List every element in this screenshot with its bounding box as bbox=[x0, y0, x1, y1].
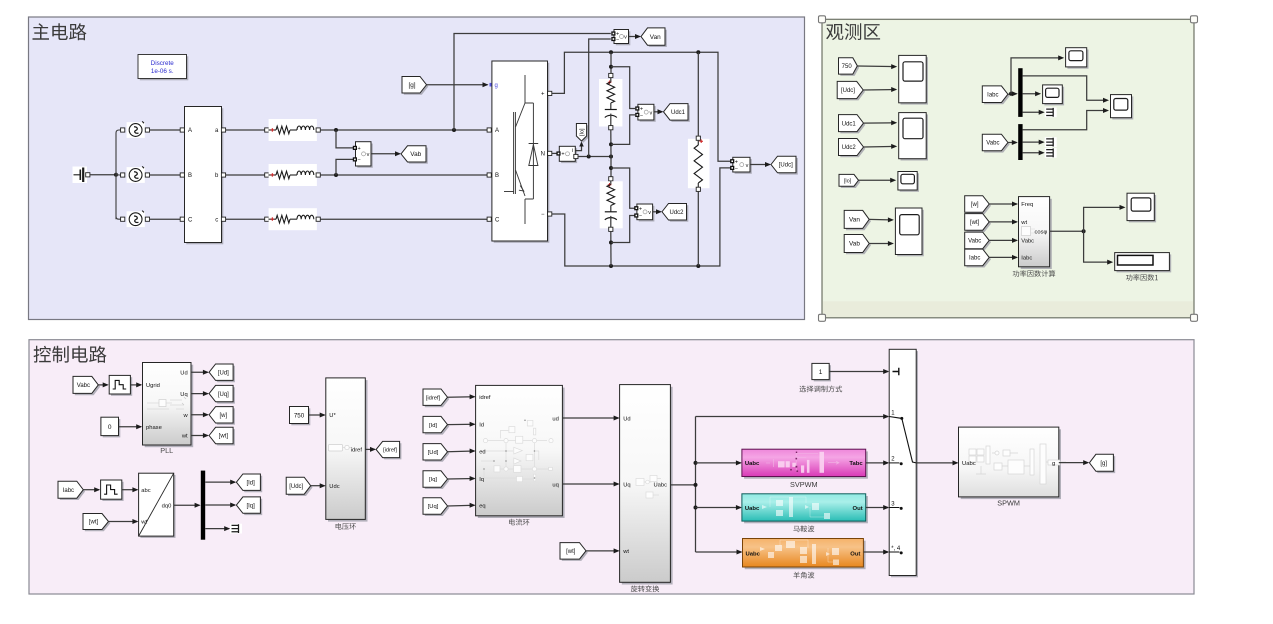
wire rail to switch input1 bbox=[696, 414, 890, 419]
wire Udc1 v output bbox=[654, 109, 664, 114]
svg-text:−: − bbox=[541, 212, 545, 218]
svg-text:uq: uq bbox=[552, 482, 558, 488]
from tag Iabc2 (obs) bbox=[965, 249, 991, 267]
wire rail to saddle bbox=[696, 505, 742, 510]
from tag [Udc] (ctrl) bbox=[286, 477, 312, 496]
svg-text:[Iq]: [Iq] bbox=[429, 477, 437, 483]
svg-text:SPWM: SPWM bbox=[997, 499, 1020, 508]
svg-text:1e-06 s.: 1e-06 s. bbox=[151, 68, 174, 75]
goto tag [Ud] bbox=[209, 364, 235, 382]
svg-text:[Udc]: [Udc] bbox=[841, 88, 855, 94]
svg-text:Discrete: Discrete bbox=[151, 60, 175, 67]
scope Ia Va bbox=[1111, 95, 1134, 120]
from tag Iabc (ctrl) bbox=[58, 481, 85, 500]
wire N to current measurement bbox=[552, 152, 557, 154]
wire converter + to top rail bbox=[552, 50, 731, 161]
svg-text:−: − bbox=[640, 113, 643, 119]
wire Io i-output to [Io] tag bbox=[576, 142, 584, 151]
wire rail to SVPWM bbox=[696, 460, 742, 465]
goto tag Udc1 bbox=[664, 104, 690, 122]
svg-text:Tabc: Tabc bbox=[849, 461, 863, 467]
svg-text:Udc: Udc bbox=[329, 484, 339, 490]
wire demux2 out1 bbox=[1023, 108, 1109, 130]
selection handle bbox=[819, 314, 826, 321]
wire source Vc to block bbox=[150, 217, 185, 221]
wire 750 to U* bbox=[309, 413, 326, 418]
svg-text:Van: Van bbox=[650, 34, 661, 41]
voltage measurement [Udc] block bbox=[730, 157, 752, 174]
wire C1 bottom to column bbox=[609, 130, 613, 157]
svg-text:PLL: PLL bbox=[160, 446, 173, 455]
svg-text:Uabc: Uabc bbox=[745, 461, 760, 467]
wire [w] to Freq bbox=[989, 202, 1018, 207]
svg-text:[Ud]: [Ud] bbox=[428, 450, 439, 456]
wire to pf display bbox=[1084, 231, 1114, 264]
from tag Vabc (obs) bbox=[982, 134, 1009, 152]
goto tag [wt] bbox=[209, 427, 235, 445]
goto tag [Udc] bbox=[771, 156, 798, 174]
wire converter - to bottom rail bbox=[552, 168, 731, 268]
wire Uabc rail bbox=[670, 417, 697, 553]
svg-text:[Uq]: [Uq] bbox=[428, 504, 439, 510]
converter block (IGBT bridge) bbox=[492, 61, 552, 243]
wire source Va to block bbox=[150, 128, 185, 132]
wire R bottom to rail bbox=[697, 191, 699, 266]
wire [g] to converter gate bbox=[427, 82, 494, 87]
svg-text:+: + bbox=[561, 152, 564, 158]
subsystem SVPWM bbox=[742, 449, 868, 489]
svg-text:g: g bbox=[1052, 461, 1055, 467]
goto tag Van bbox=[641, 28, 667, 47]
wire to Udc2 - bbox=[611, 216, 635, 243]
wire horn to switch4 bbox=[863, 550, 889, 555]
svg-text:[idref]: [idref] bbox=[426, 395, 441, 401]
annotation area 观测区 inner bbox=[823, 20, 1193, 301]
annotation area 控制电路 (control circuit region) bbox=[29, 340, 1194, 594]
wire Vabc to ZOH bbox=[98, 382, 108, 387]
svg-text:B: B bbox=[495, 173, 499, 179]
wire PLL to [Ud] bbox=[191, 370, 209, 375]
svg-text:B: B bbox=[188, 173, 192, 179]
subsystem 电压环 (voltage loop) bbox=[326, 378, 368, 530]
demux Iabc bbox=[1018, 68, 1022, 117]
svg-text:Freq: Freq bbox=[1021, 202, 1033, 208]
wire DC midpoint column upper bbox=[609, 52, 613, 77]
subsystem 旋转变换 (rotating transform) bbox=[620, 385, 673, 592]
svg-text:[Ud]: [Ud] bbox=[218, 370, 229, 376]
svg-text:[idref]: [idref] bbox=[383, 448, 397, 454]
AC voltage source Va bbox=[121, 121, 150, 137]
svg-text:dq0: dq0 bbox=[162, 504, 172, 510]
wire C2 bottom to bottom rail bbox=[609, 231, 613, 266]
svg-text:−: − bbox=[616, 37, 619, 43]
svg-text:[g]: [g] bbox=[408, 82, 415, 89]
svg-text:Iq: Iq bbox=[479, 477, 484, 483]
from tag [g] bbox=[402, 77, 428, 95]
wire cos output bbox=[1050, 229, 1086, 233]
from tag Iabc (obs) bbox=[982, 86, 1009, 104]
svg-text:Udc1: Udc1 bbox=[842, 121, 857, 127]
constant tag 750 (obs) bbox=[839, 58, 860, 76]
series RL branch RL3 bbox=[269, 208, 321, 230]
wire DC column mid-lower bbox=[609, 157, 613, 181]
svg-text:Vab: Vab bbox=[410, 151, 421, 158]
demux Vabc bbox=[1018, 124, 1022, 160]
wire 1 to switch ctrl bbox=[829, 369, 889, 374]
wire [wt] to rot bbox=[586, 548, 620, 553]
series RL branch RL2 bbox=[269, 164, 321, 186]
constant 1 (modulation select) bbox=[800, 363, 843, 392]
svg-text:Vabc: Vabc bbox=[77, 383, 90, 389]
load resistor R bbox=[688, 136, 710, 191]
scope Udc1 Udc2 bbox=[899, 113, 928, 161]
wire [Iq] to current loop bbox=[448, 476, 476, 481]
from tag Udc1 (obs) bbox=[839, 115, 866, 134]
wire ZOH2 to abc bbox=[122, 487, 139, 492]
wire Udc2 v output bbox=[653, 209, 662, 214]
from tag [Id] (cl) bbox=[423, 416, 449, 434]
demux Idq bbox=[201, 471, 205, 540]
svg-text:0: 0 bbox=[108, 424, 112, 431]
svg-text:cosφ: cosφ bbox=[1035, 230, 1048, 236]
svg-text:C: C bbox=[495, 217, 500, 223]
svg-text:Van: Van bbox=[849, 217, 860, 224]
svg-text:[wt]: [wt] bbox=[219, 434, 229, 440]
from tag [Udc] (obs) bbox=[837, 81, 865, 100]
svg-text:phase: phase bbox=[146, 425, 162, 431]
wire Van to scope bbox=[869, 217, 894, 222]
wire demux2 out2 bbox=[1023, 137, 1057, 147]
powergui block Discrete 1e-06 s bbox=[138, 55, 188, 81]
goto tag [idref] bbox=[376, 441, 401, 459]
wire Udc2 to scope2 bbox=[864, 144, 898, 149]
wire source bus vertical bbox=[116, 130, 121, 219]
svg-text:wt: wt bbox=[622, 549, 629, 555]
scope Ia top bbox=[1066, 48, 1089, 69]
svg-text:c: c bbox=[215, 217, 218, 223]
zero-order hold 1 bbox=[109, 375, 132, 395]
svg-text:abc: abc bbox=[141, 488, 150, 494]
wire Vabc to demux bbox=[1008, 140, 1018, 145]
wire PLL to [Uq] bbox=[191, 391, 209, 396]
svg-text:Ud: Ud bbox=[623, 416, 630, 422]
svg-text:+: + bbox=[735, 159, 738, 165]
goto tag [g] bbox=[1089, 454, 1115, 473]
wire [Ud] to current loop bbox=[448, 449, 476, 454]
wire phase a to converter A bbox=[320, 128, 491, 132]
wire rail to horn bbox=[696, 550, 743, 555]
svg-text:750: 750 bbox=[842, 64, 853, 70]
constant 0 bbox=[101, 417, 120, 437]
svg-text:Out: Out bbox=[850, 552, 860, 558]
scope Udc ref bbox=[899, 55, 928, 104]
constant 750 bbox=[290, 407, 311, 426]
svg-text:Iabc: Iabc bbox=[969, 256, 980, 262]
wire source Vb to block bbox=[150, 173, 185, 177]
current measurement Io bbox=[556, 146, 578, 163]
svg-text:Iabc: Iabc bbox=[1021, 256, 1032, 262]
from tag Vabc (pll) bbox=[73, 376, 100, 395]
from tag Vabc2 (obs) bbox=[965, 232, 991, 250]
from tag [Ud] (cl) bbox=[423, 444, 449, 462]
svg-text:[wt]: [wt] bbox=[89, 520, 99, 526]
AC voltage source Vc bbox=[121, 211, 150, 228]
wire phase b to converter B bbox=[320, 173, 491, 177]
capacitor branch C2 (RC series) bbox=[600, 181, 623, 232]
svg-text:N: N bbox=[541, 152, 545, 158]
svg-text:*, 4: *, 4 bbox=[891, 546, 901, 552]
wire block c to RL branch bbox=[226, 217, 269, 221]
from tag Van (obs) bbox=[844, 210, 871, 230]
svg-text:ed: ed bbox=[479, 449, 485, 455]
subsystem 电流环 (current loop) bbox=[476, 385, 565, 525]
wire [Io] to scope bbox=[859, 178, 897, 183]
svg-text:[Udc]: [Udc] bbox=[289, 484, 303, 490]
svg-text:[Io]: [Io] bbox=[844, 179, 852, 185]
svg-text:Uabc: Uabc bbox=[653, 482, 667, 488]
wire ground to source bus bbox=[90, 173, 118, 177]
wire 0 to PLL phase bbox=[119, 424, 143, 429]
wire PLL to [wt] bbox=[191, 433, 209, 438]
svg-text:v: v bbox=[648, 210, 651, 216]
wire midpoint to Van - bbox=[589, 39, 611, 157]
wire demux1 out2 bbox=[1023, 91, 1042, 96]
wire Vab to scope bbox=[869, 241, 894, 246]
wire to Udc1 - bbox=[611, 115, 635, 144]
svg-text:Out: Out bbox=[853, 506, 863, 512]
svg-text:Udc2: Udc2 bbox=[842, 145, 857, 151]
svg-text:wt: wt bbox=[140, 520, 147, 526]
wire uq to Uq bbox=[562, 482, 619, 487]
svg-text:Vab: Vab bbox=[849, 241, 860, 248]
svg-text:Uabc: Uabc bbox=[746, 552, 761, 558]
svg-text:ud: ud bbox=[552, 416, 558, 422]
from tag [wt] (obs) bbox=[965, 214, 991, 232]
svg-text:idref: idref bbox=[479, 395, 491, 401]
wire [Udc] v output bbox=[750, 162, 771, 167]
svg-text:Vabc: Vabc bbox=[986, 141, 999, 147]
wire block b to RL branch bbox=[226, 173, 269, 177]
from tag [Io] (obs) bbox=[839, 174, 860, 188]
from tag [wt] (rot) bbox=[560, 543, 588, 561]
wire switch to SPWM bbox=[916, 460, 958, 465]
goto tag [w] bbox=[209, 407, 235, 425]
wire [Udc] to scope1 bbox=[863, 87, 897, 92]
svg-text:Udc2: Udc2 bbox=[669, 210, 684, 216]
subsystem SPWM bbox=[959, 427, 1067, 508]
svg-text:Uq: Uq bbox=[623, 482, 630, 488]
scope Ia mid bbox=[1043, 85, 1065, 105]
wire phase c to converter C bbox=[320, 217, 491, 221]
selection handle bbox=[1191, 16, 1198, 23]
svg-text:[Id]: [Id] bbox=[246, 480, 255, 486]
wire A node to Van + bbox=[454, 34, 611, 131]
wire SPWM to [g] bbox=[1059, 460, 1089, 465]
svg-text:1: 1 bbox=[819, 369, 823, 376]
svg-text:−: − bbox=[357, 158, 360, 164]
svg-text:Uabc: Uabc bbox=[962, 461, 976, 467]
wire Van v output bbox=[629, 34, 642, 39]
wire [wt] to wt bbox=[989, 219, 1018, 224]
svg-text:Vabc: Vabc bbox=[1021, 239, 1034, 245]
wire 750 to scope1 bbox=[857, 64, 897, 69]
wire to Udc1 + bbox=[611, 67, 635, 109]
selection handle bbox=[1191, 314, 1198, 321]
wire SVPWM to switch2 bbox=[866, 460, 890, 465]
wire Iabc to block bbox=[989, 255, 1018, 260]
voltage measurement Udc2 block bbox=[634, 204, 654, 222]
svg-text:Uq: Uq bbox=[180, 392, 187, 398]
svg-text:−: − bbox=[639, 214, 642, 220]
svg-text:[Id]: [Id] bbox=[429, 423, 437, 429]
svg-text:[Io]: [Io] bbox=[580, 128, 586, 136]
svg-text:SVPWM: SVPWM bbox=[790, 480, 818, 489]
wire demux1 out1 bbox=[1023, 76, 1109, 103]
svg-text:−: − bbox=[735, 166, 738, 172]
svg-text:Uabc: Uabc bbox=[745, 506, 760, 512]
svg-text:wt: wt bbox=[1020, 220, 1027, 226]
wire Iabc to ZOH2 bbox=[83, 487, 100, 492]
goto tag [Io] vertical bbox=[576, 124, 588, 143]
annotation area 主电路 (main circuit region) bbox=[29, 17, 805, 320]
series RL branch RL1 bbox=[269, 119, 321, 141]
svg-text:w: w bbox=[183, 413, 189, 419]
capacitor branch C1 (RC series) bbox=[599, 78, 622, 130]
scope Van Vab bbox=[895, 208, 923, 256]
subsystem 马鞍波 (saddle wave) bbox=[742, 494, 868, 532]
wire Udc1 to scope2 bbox=[864, 120, 898, 125]
selection handle bbox=[819, 16, 826, 23]
goto tag Udc2 bbox=[662, 204, 688, 222]
wire demux to [Id] bbox=[205, 480, 236, 485]
transform block abc to dq0 bbox=[139, 473, 176, 538]
zero-order hold 2 bbox=[101, 480, 124, 501]
goto tag [Id] bbox=[236, 474, 262, 492]
from tag [Uq] (cl) bbox=[423, 498, 449, 516]
svg-text:i: i bbox=[572, 148, 573, 154]
svg-text:750: 750 bbox=[294, 412, 305, 419]
svg-text:Iabc: Iabc bbox=[987, 92, 998, 98]
svg-text:A: A bbox=[188, 128, 192, 134]
from tag [w] (obs) bbox=[965, 196, 991, 214]
svg-text:v: v bbox=[650, 110, 653, 116]
svg-text:[Uq]: [Uq] bbox=[218, 392, 229, 398]
svg-text:+: + bbox=[357, 146, 360, 152]
svg-text:[wt]: [wt] bbox=[566, 549, 576, 555]
annotation area 观测区 outer (selected) bbox=[822, 19, 1194, 318]
wire PLL to [w] bbox=[191, 412, 209, 417]
voltage measurement Udc1 block bbox=[635, 104, 656, 121]
svg-text:+: + bbox=[639, 206, 642, 212]
voltage measurement Van bbox=[611, 30, 630, 46]
wire R top to rail bbox=[697, 52, 699, 136]
wire to Vab + input bbox=[336, 130, 354, 148]
svg-text:[Udc]: [Udc] bbox=[779, 163, 793, 169]
svg-text:v: v bbox=[746, 163, 749, 169]
svg-text:g: g bbox=[495, 83, 498, 89]
wire Io output to midpoint node bbox=[578, 155, 613, 159]
scope pf bbox=[1127, 193, 1156, 222]
svg-text:C: C bbox=[188, 217, 193, 223]
wire Vabc to block bbox=[989, 238, 1018, 243]
wire Vab v output bbox=[371, 151, 401, 156]
multiport switch bbox=[889, 349, 918, 577]
wire demux to terminator bbox=[205, 524, 242, 534]
subsystem 羊角波 (horn wave) bbox=[743, 539, 866, 579]
svg-text:Iabc: Iabc bbox=[63, 488, 74, 494]
wire to Vab - input bbox=[336, 159, 354, 175]
wire saddle to switch3 bbox=[866, 505, 890, 510]
wire Iabc to demux bbox=[1008, 91, 1018, 96]
svg-text:[Iq]: [Iq] bbox=[246, 503, 255, 509]
svg-text:Ud: Ud bbox=[180, 370, 187, 376]
wire [Uq] to current loop bbox=[448, 503, 476, 508]
wire demux1 out3 bbox=[1023, 107, 1057, 117]
wire [idref] to current loop bbox=[448, 394, 476, 399]
from tag Vab (obs) bbox=[844, 235, 871, 255]
ground symbol bbox=[73, 167, 90, 184]
svg-text:+: + bbox=[640, 107, 643, 113]
subsystem 功率因数计算 (power factor calc) bbox=[1013, 197, 1055, 277]
svg-text:wt: wt bbox=[181, 434, 188, 440]
svg-text:U*: U* bbox=[329, 413, 336, 419]
from tag Udc2 (obs) bbox=[839, 139, 866, 158]
from tag [Iq] (cl) bbox=[423, 471, 449, 489]
svg-text:v: v bbox=[367, 152, 370, 158]
wire block a to RL branch bbox=[226, 128, 269, 132]
svg-text:Udc1: Udc1 bbox=[671, 110, 686, 116]
goto tag [Iq] bbox=[236, 497, 262, 515]
wire demux2 out3 bbox=[1023, 148, 1057, 158]
display block 功率因数1 bbox=[1115, 253, 1172, 281]
svg-text:idref: idref bbox=[351, 448, 363, 454]
goto tag [Uq] bbox=[209, 385, 235, 403]
wire [Udc] to Udc bbox=[311, 483, 326, 488]
AC voltage source Vb bbox=[121, 166, 150, 183]
svg-text:[g]: [g] bbox=[1100, 461, 1107, 467]
from tag [wt] (dq0) bbox=[83, 514, 110, 532]
wire idref out bbox=[365, 447, 376, 452]
wire ud to Ud bbox=[562, 416, 619, 421]
wire to Udc2 + bbox=[611, 168, 635, 208]
subsystem PLL bbox=[143, 363, 194, 455]
wire [wt] to dq0 bbox=[109, 519, 139, 524]
wire ZOH to PLL Ugrid bbox=[130, 382, 142, 387]
svg-text:Id: Id bbox=[479, 423, 484, 429]
svg-text:Ugrid: Ugrid bbox=[146, 383, 160, 389]
scope Io bbox=[898, 172, 919, 192]
svg-text:Vabc: Vabc bbox=[968, 239, 981, 245]
three-phase source block bbox=[185, 107, 226, 245]
wire to pf scope bbox=[1084, 205, 1126, 231]
voltage measurement Vab bbox=[353, 142, 373, 168]
svg-text:A: A bbox=[495, 128, 499, 134]
wire demux to [Iq] bbox=[205, 503, 236, 508]
from tag [idref] (cl) bbox=[423, 389, 449, 407]
wire Iabc branch to scope bbox=[1011, 55, 1064, 93]
svg-text:[w]: [w] bbox=[971, 202, 979, 208]
wire dq0 to demux bbox=[174, 503, 201, 508]
goto tag Vab bbox=[401, 146, 428, 164]
svg-text:v: v bbox=[624, 35, 627, 41]
svg-text:[w]: [w] bbox=[220, 413, 228, 419]
wire [Id] to current loop bbox=[448, 422, 476, 427]
svg-text:eq: eq bbox=[479, 504, 485, 510]
svg-text:[wt]: [wt] bbox=[970, 220, 980, 226]
svg-text:+: + bbox=[541, 92, 545, 98]
